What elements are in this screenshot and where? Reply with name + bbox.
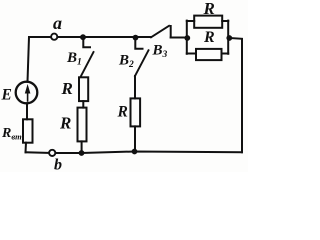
svg-text:b: b — [54, 157, 62, 173]
svg-text:R: R — [61, 79, 73, 98]
svg-text:Rвт: Rвт — [1, 126, 22, 142]
svg-text:R: R — [59, 114, 71, 133]
svg-text:B2: B2 — [118, 53, 134, 71]
svg-text:R: R — [203, 29, 215, 46]
svg-text:R: R — [117, 104, 128, 121]
svg-text:E: E — [1, 86, 12, 103]
svg-text:B3: B3 — [152, 43, 168, 61]
svg-text:B1: B1 — [66, 50, 82, 68]
svg-text:a: a — [53, 13, 62, 33]
svg-text:R: R — [203, 0, 215, 18]
